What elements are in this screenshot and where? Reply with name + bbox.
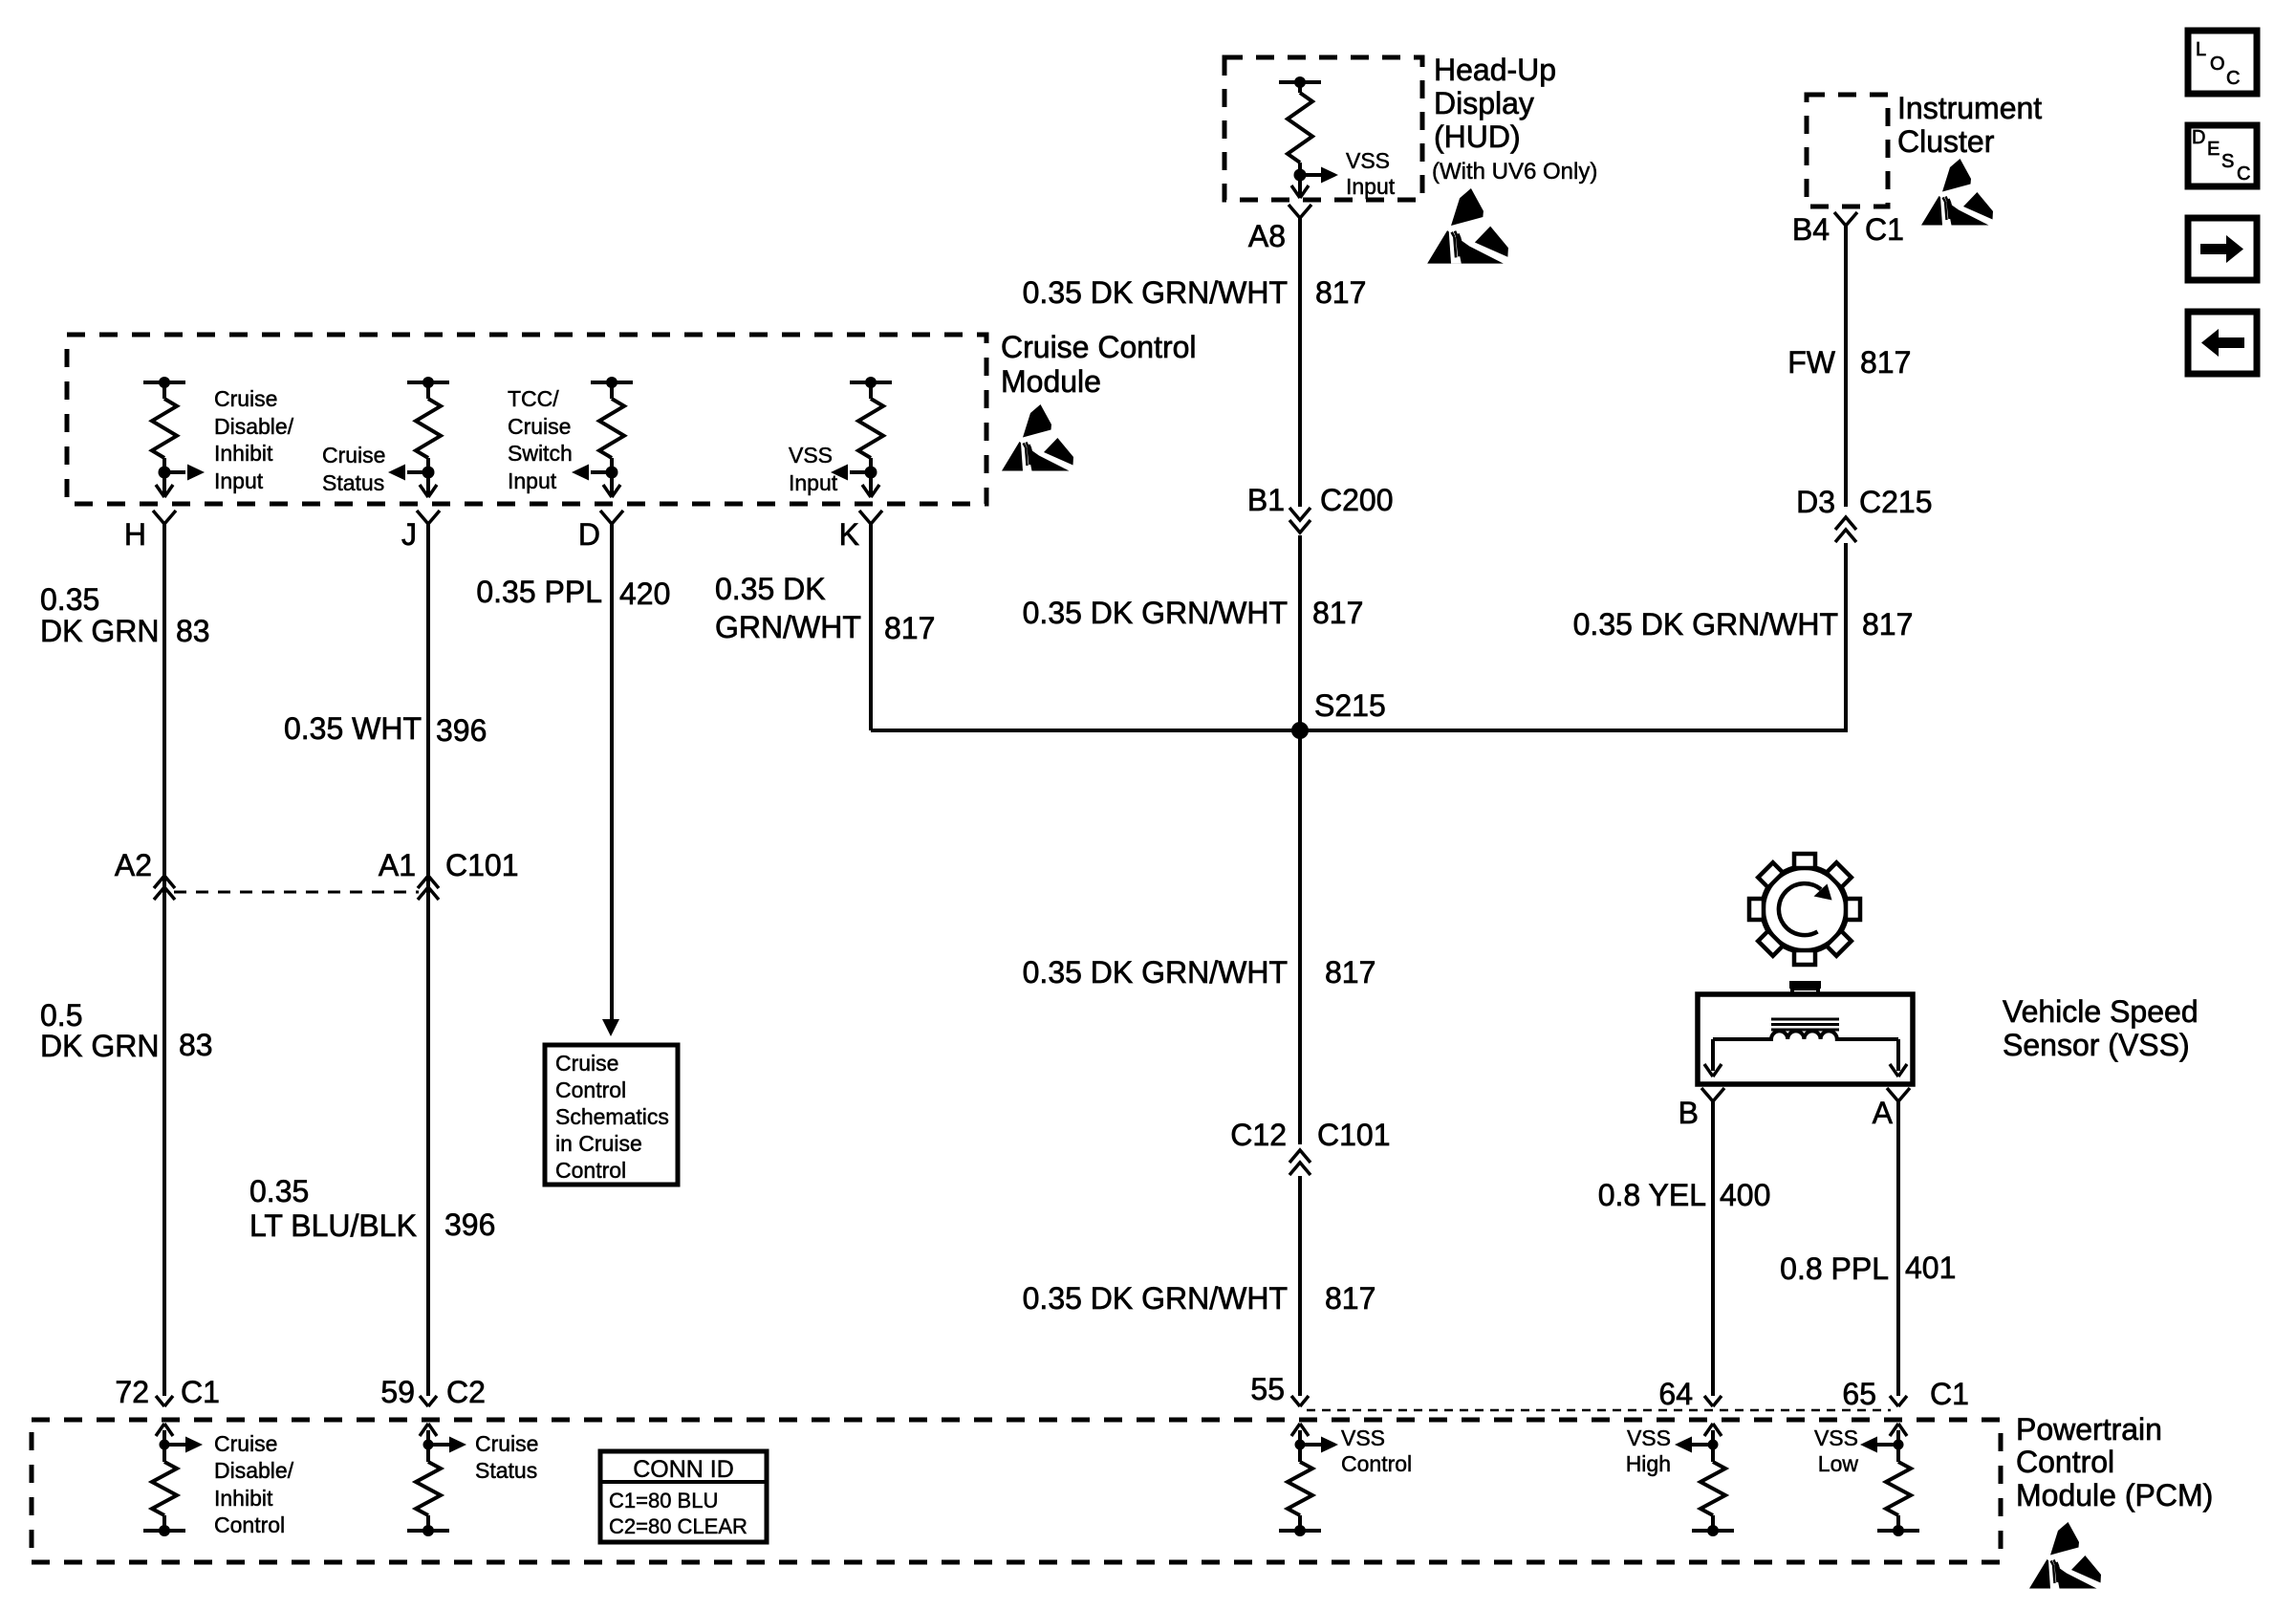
pin A8 connector: [1289, 205, 1300, 218]
HUD internal resistor: [1279, 80, 1321, 84]
wire A: 0.8 PPL 401: [1896, 1101, 1900, 1396]
svg-text:Vehicle Speed: Vehicle Speed: [2003, 994, 2199, 1029]
svg-text:Cruise: Cruise: [322, 443, 385, 468]
svg-text:High: High: [1626, 1451, 1671, 1476]
ESD symbol (cluster): [1921, 159, 1993, 226]
main 817 wire: C200 to C12/C101: [1298, 535, 1302, 1144]
resistor: TCC/Cruise Switch Input: [591, 381, 633, 384]
svg-text:Status: Status: [475, 1458, 537, 1483]
svg-text:817: 817: [884, 611, 935, 645]
svg-text:Input: Input: [789, 470, 838, 495]
svg-text:A1: A1: [379, 848, 416, 882]
main 817 wire: C101 to PCM pin 55: [1298, 1176, 1302, 1396]
svg-text:Status: Status: [322, 470, 384, 495]
svg-text:LT BLU/BLK: LT BLU/BLK: [249, 1208, 417, 1243]
CONN ID table: [600, 1451, 767, 1542]
svg-text:B: B: [1679, 1096, 1699, 1130]
Instrument Cluster box: [1807, 95, 1888, 207]
pin A connector: [1887, 1088, 1898, 1101]
wire exit arrow to A8: [1298, 175, 1302, 197]
svg-text:0.35: 0.35: [249, 1174, 309, 1208]
Cruise Control Schematics in Cruise Control box: [545, 1045, 678, 1185]
wire D (0.35 PPL 420): [610, 524, 614, 1019]
forward arrow box: [2188, 218, 2257, 280]
svg-text:0.35 DK GRN/WHT: 0.35 DK GRN/WHT: [1023, 275, 1288, 310]
wire B: 0.8 YEL 400: [1711, 1101, 1715, 1396]
svg-text:420: 420: [619, 577, 670, 611]
svg-text:J: J: [401, 517, 417, 552]
svg-text:D: D: [2192, 127, 2205, 148]
svg-text:Module: Module: [1001, 364, 1101, 399]
VSS connector tab: [1789, 981, 1821, 989]
svg-text:Instrument: Instrument: [1897, 91, 2042, 125]
svg-text:C2=80 CLEAR: C2=80 CLEAR: [609, 1514, 747, 1538]
svg-text:Sensor (VSS): Sensor (VSS): [2003, 1028, 2190, 1062]
wire J (cruise status): [426, 524, 430, 1396]
resistor: VSS Input (cruise module): [850, 381, 892, 384]
svg-text:817: 817: [1860, 345, 1911, 380]
svg-text:396: 396: [436, 713, 487, 748]
svg-text:83: 83: [179, 1028, 213, 1062]
svg-text:817: 817: [1325, 1281, 1375, 1316]
svg-text:C101: C101: [1317, 1118, 1391, 1152]
DESC reference box: [2188, 125, 2257, 186]
connector A2 on wire H: [154, 876, 175, 888]
svg-text:Disable/: Disable/: [214, 414, 294, 439]
Vehicle Speed Sensor box: [1698, 994, 1913, 1084]
svg-text:0.8 YEL: 0.8 YEL: [1598, 1178, 1706, 1212]
LOC reference box: [2188, 31, 2257, 94]
PCM resistor: Cruise Disable/Inhibit Control: [162, 1430, 166, 1445]
svg-text:817: 817: [1312, 596, 1363, 630]
svg-text:K: K: [839, 517, 859, 552]
ESD symbol (PCM): [2029, 1522, 2101, 1589]
svg-text:(HUD): (HUD): [1434, 120, 1521, 154]
dashed connector line A2-A1: [174, 891, 419, 894]
svg-text:Cluster: Cluster: [1897, 124, 1995, 159]
svg-text:C: C: [2237, 163, 2250, 185]
svg-text:VSS: VSS: [1627, 1425, 1671, 1450]
wire K (VSS input to cruise module): [869, 524, 873, 730]
svg-text:0.35 DK GRN/WHT: 0.35 DK GRN/WHT: [1023, 596, 1288, 630]
svg-text:O: O: [2210, 54, 2225, 75]
svg-text:0.35 PPL: 0.35 PPL: [476, 575, 602, 609]
PCM resistor: VSS Low: [1896, 1430, 1900, 1445]
svg-text:Module (PCM): Module (PCM): [2016, 1478, 2213, 1512]
svg-text:Inhibit: Inhibit: [214, 441, 273, 466]
svg-text:DK GRN: DK GRN: [40, 614, 159, 648]
svg-text:(With UV6 Only): (With UV6 Only): [1432, 159, 1597, 185]
svg-text:0.35 DK GRN/WHT: 0.35 DK GRN/WHT: [1573, 607, 1838, 642]
connector A1 / C101 on wire J: [418, 876, 439, 888]
svg-text:0.35 DK GRN/WHT: 0.35 DK GRN/WHT: [1023, 1281, 1288, 1316]
pin D connector: [600, 511, 612, 524]
VSS internal lead A: [1896, 1039, 1900, 1071]
svg-text:TCC/: TCC/: [508, 386, 559, 411]
cluster 817 wire: B4 to D3/C215: [1844, 226, 1848, 507]
svg-text:VSS: VSS: [1346, 148, 1390, 173]
svg-text:0.35 DK: 0.35 DK: [715, 572, 826, 606]
svg-text:Switch: Switch: [508, 441, 573, 466]
svg-text:0.35 DK GRN/WHT: 0.35 DK GRN/WHT: [1023, 955, 1288, 990]
PCM resistor: VSS High: [1711, 1430, 1715, 1445]
svg-text:Control: Control: [555, 1077, 626, 1102]
svg-text:S215: S215: [1314, 688, 1386, 723]
svg-text:C101: C101: [445, 848, 519, 882]
svg-text:Input: Input: [214, 468, 264, 493]
cluster 817 wire: C215 down to S215 bus: [1844, 543, 1848, 732]
svg-text:S: S: [2221, 151, 2234, 172]
main 817 wire: HUD to B1/C200: [1298, 218, 1302, 507]
svg-text:817: 817: [1862, 607, 1913, 642]
horizontal 817 bus: K wire to instrument cluster riser: [871, 729, 1846, 732]
svg-text:Control: Control: [555, 1158, 626, 1183]
svg-text:0.5: 0.5: [40, 998, 82, 1033]
svg-text:Control: Control: [2016, 1445, 2114, 1479]
svg-text:FW: FW: [1787, 345, 1836, 380]
wire H (0.35 DK GRN 83): [162, 524, 166, 1396]
svg-text:C1: C1: [1930, 1377, 1969, 1411]
svg-text:VSS: VSS: [789, 443, 833, 468]
HUD VSS Input branch arrow: [1300, 173, 1321, 177]
svg-text:Display: Display: [1434, 86, 1534, 120]
svg-text:C: C: [2226, 68, 2240, 89]
svg-text:GRN/WHT: GRN/WHT: [715, 610, 861, 644]
svg-text:VSS: VSS: [1341, 1425, 1385, 1450]
svg-text:59: 59: [380, 1375, 415, 1409]
C1 connector grouping dashed line: [1307, 1409, 1891, 1412]
Head-Up Display (HUD) module box: [1224, 57, 1422, 200]
svg-text:Cruise: Cruise: [508, 414, 571, 439]
svg-text:401: 401: [1905, 1251, 1956, 1285]
svg-text:D: D: [578, 517, 600, 552]
pin B connector: [1701, 1088, 1713, 1101]
svg-text:817: 817: [1315, 275, 1366, 310]
svg-text:Control: Control: [1341, 1451, 1412, 1476]
VSS internal lead B: [1711, 1039, 1715, 1071]
svg-text:Cruise Control: Cruise Control: [1001, 330, 1197, 364]
svg-text:C1: C1: [181, 1375, 220, 1409]
svg-text:A: A: [1873, 1096, 1894, 1130]
splice S215 junction: [1291, 722, 1309, 739]
PCM resistor: VSS Control: [1298, 1430, 1302, 1445]
svg-text:Low: Low: [1818, 1451, 1859, 1476]
svg-text:Head-Up: Head-Up: [1434, 53, 1556, 87]
ESD symbol (HUD): [1427, 188, 1508, 264]
svg-text:Cruise: Cruise: [214, 386, 277, 411]
svg-text:Input: Input: [508, 468, 557, 493]
VSS reluctor gear icon: [1763, 867, 1847, 951]
svg-text:65: 65: [1842, 1377, 1876, 1411]
svg-text:Input: Input: [1346, 174, 1396, 199]
svg-text:72: 72: [115, 1375, 149, 1409]
pin H connector: [153, 511, 164, 524]
svg-text:in Cruise: in Cruise: [555, 1131, 642, 1156]
svg-text:817: 817: [1325, 955, 1375, 990]
svg-text:CONN ID: CONN ID: [633, 1456, 734, 1483]
svg-text:Inhibit: Inhibit: [214, 1486, 273, 1511]
svg-text:B1: B1: [1247, 483, 1285, 517]
pin K connector: [859, 511, 871, 524]
svg-text:64: 64: [1658, 1377, 1693, 1411]
svg-text:C1: C1: [1865, 212, 1904, 247]
svg-text:396: 396: [444, 1207, 495, 1242]
svg-text:55: 55: [1250, 1372, 1285, 1406]
svg-text:C200: C200: [1320, 483, 1394, 517]
svg-text:Cruise: Cruise: [475, 1431, 538, 1456]
svg-text:0.35: 0.35: [40, 582, 99, 617]
svg-text:C2: C2: [446, 1375, 486, 1409]
svg-text:H: H: [124, 517, 146, 552]
svg-text:C12: C12: [1230, 1118, 1287, 1152]
pin J connector: [417, 511, 428, 524]
svg-text:A8: A8: [1248, 219, 1286, 253]
svg-text:83: 83: [176, 614, 210, 648]
Powertrain Control Module (PCM) box: [32, 1420, 2001, 1562]
ESD symbol (cruise module): [1002, 404, 1073, 471]
svg-text:VSS: VSS: [1814, 1425, 1858, 1450]
svg-text:0.8 PPL: 0.8 PPL: [1780, 1251, 1889, 1286]
svg-text:A2: A2: [115, 848, 152, 882]
svg-text:C215: C215: [1859, 485, 1933, 519]
resistor: Cruise Status: [407, 381, 449, 384]
resistor: Cruise Disable/Inhibit Input: [143, 381, 185, 384]
svg-text:Powertrain: Powertrain: [2016, 1412, 2162, 1447]
svg-text:Control: Control: [214, 1512, 285, 1537]
VSS core (3 lines): [1771, 1018, 1839, 1021]
pin B4 / C1 connector: [1834, 212, 1846, 226]
PCM resistor: Cruise Status: [426, 1430, 430, 1445]
svg-text:400: 400: [1720, 1178, 1770, 1212]
Cruise Control Module box: [67, 335, 986, 504]
svg-text:Disable/: Disable/: [214, 1458, 294, 1483]
svg-text:B4: B4: [1792, 212, 1830, 247]
svg-text:D3: D3: [1796, 485, 1835, 519]
svg-text:Cruise: Cruise: [555, 1051, 618, 1076]
svg-text:0.35 WHT: 0.35 WHT: [284, 711, 422, 746]
back arrow box: [2188, 312, 2257, 374]
svg-text:C1=80 BLU: C1=80 BLU: [609, 1489, 718, 1512]
svg-text:E: E: [2207, 139, 2220, 160]
arrow into cruise control schematics box: [602, 1019, 619, 1036]
svg-text:Schematics: Schematics: [555, 1104, 669, 1129]
svg-text:L: L: [2196, 39, 2206, 60]
VSS coil winding: [1713, 1031, 1898, 1039]
svg-text:DK GRN: DK GRN: [40, 1029, 159, 1063]
svg-text:Cruise: Cruise: [214, 1431, 277, 1456]
